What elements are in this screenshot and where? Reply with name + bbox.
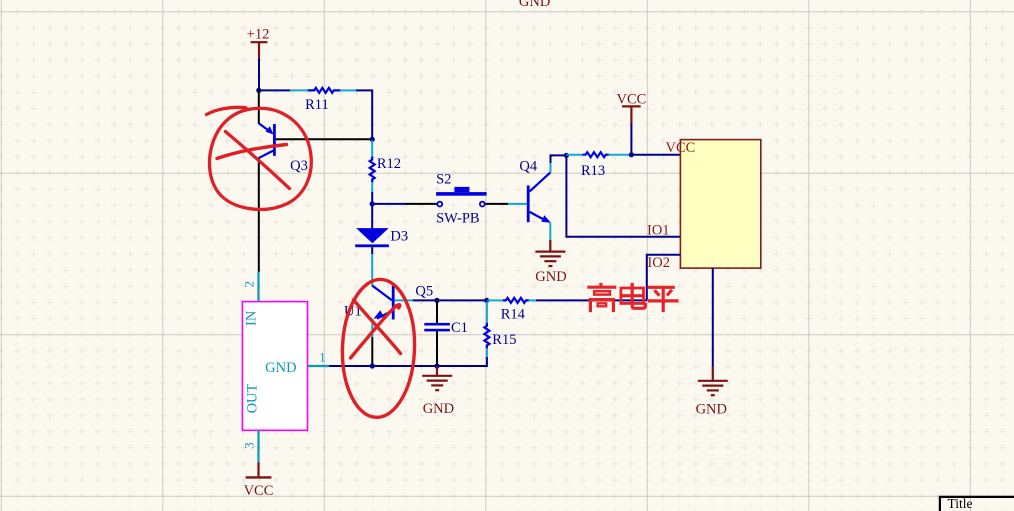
wire R14 to IO2 [536,299,647,301]
pin R11.2 [340,89,356,91]
wire Q3 collector top [258,89,260,124]
resistor R11 [305,88,340,113]
svg-text:VCC: VCC [244,483,274,499]
pin 3 OUT [241,430,258,462]
node junction Q5/C1 [434,298,439,303]
wire node to D3 [371,204,373,229]
svg-text:3: 3 [241,442,256,449]
pin R15.2 [486,348,488,357]
wire Q3 base [276,138,372,140]
sheet entry VCC [666,140,696,156]
svg-text:Q4: Q4 [519,159,537,175]
svg-text:C1: C1 [451,320,468,336]
svg-text:R11: R11 [305,97,329,113]
svg-text:GND: GND [535,269,566,285]
resistor R12 [370,156,401,182]
svg-text:R15: R15 [492,332,516,348]
power port VCC bottom [244,462,274,498]
label GND reg [265,360,296,376]
resistor R15 [484,323,516,349]
node junction R14/R15 [484,298,489,303]
power port +12 [247,27,270,58]
switch S2 [436,171,487,226]
node junction C1/GND rail [434,363,439,368]
transistor Q3 [259,124,308,174]
wire Q3 emitter down [258,157,260,272]
transistor Q4 [519,159,551,223]
wire bottom rail [329,365,437,367]
pin R11.1 [290,89,308,91]
svg-text:GND: GND [519,0,550,10]
ground GND C1 [422,376,454,417]
wire IO1 [566,155,680,236]
capacitor C1 [424,320,468,336]
wire R11 to R12 corner [356,90,372,139]
wire node to S2 black [405,203,438,205]
svg-text:VCC: VCC [616,92,646,108]
pin 2 IN [242,272,259,302]
svg-text:2: 2 [242,281,257,288]
pin R15.1 [486,302,488,323]
svg-text:GND: GND [265,360,296,376]
wire C1 top [436,300,438,323]
sheet entry IO2 [647,255,670,271]
pin R12.2 [371,182,373,192]
wire Q4 emitter gnd [549,240,551,252]
wire S2 to Q4 [486,203,509,205]
resistor R13 [581,152,609,179]
sheet entry IO1 [647,222,670,238]
annotation cross U1 [351,300,401,358]
pin R13.1 [566,154,582,156]
wire C1 to R15 node [437,299,487,301]
svg-text:D3: D3 [390,228,408,244]
node junction +12 rail [256,88,261,93]
wire U1 base [413,299,437,301]
pin R13.2 [609,154,630,156]
diode D3 [355,228,408,247]
svg-text:GND: GND [423,401,454,417]
pin U1 emitter [371,319,373,337]
svg-text:GND: GND [696,401,727,417]
wire IO2 [647,255,681,301]
svg-text:OUT: OUT [244,383,260,413]
pin Q4 collector [550,163,552,172]
svg-text:IN: IN [243,310,259,326]
node junction D3/S2 [370,201,375,206]
svg-text:Q3: Q3 [290,158,308,174]
pin R14.1 [488,299,504,301]
ground GND U-box [696,381,728,418]
wire GND stem C1 [436,366,438,376]
wire VCC stem navy [630,123,632,155]
wire R12 to node [371,192,373,204]
ground GND Q4 [535,252,566,285]
pin Q4 base [508,203,527,205]
node junction R13/VCC [629,152,634,157]
pin R12.1 [371,140,373,156]
pin U1 base [395,299,413,301]
wire node to S2 navy [372,203,405,205]
wire D3 down [371,247,373,254]
svg-text:R14: R14 [501,306,526,322]
node junction R11/R12 [370,137,375,142]
wire R11 left [259,89,290,91]
svg-text:R13: R13 [581,163,605,179]
svg-text:VCC: VCC [666,140,696,156]
svg-text:+12: +12 [247,27,270,43]
power label GND top [519,0,550,10]
wire R13 to U-box [631,154,680,156]
annotation ellipse Q3 [207,107,312,209]
svg-text:SW-PB: SW-PB [436,211,480,227]
resistor R14 [501,298,529,323]
wire R15 to bottom rail [437,357,487,366]
label high-level 电 [621,283,645,308]
label IN [243,310,259,326]
label OUT [244,383,260,413]
node junction emitter/rail [370,363,375,368]
pin 1 GND [308,350,330,366]
svg-text:IO2: IO2 [647,255,670,271]
wire U-box to GND [712,268,714,367]
wire U1 emitter [371,337,373,366]
pin R14.2 [529,299,536,301]
node junction Q4/R13 [564,153,569,158]
pin D3 / U1 collector [371,254,373,286]
label high-level 高 [587,283,616,312]
label high-level 平 [648,287,679,312]
svg-text:IO1: IO1 [647,222,670,238]
wire C1 bottom [436,331,438,366]
annotation cross Q3 [217,132,290,189]
wire +12 stem [258,58,260,92]
wire Q4 collector [551,155,567,163]
wire GND stem [712,367,714,381]
annotation ellipse U1 [340,278,417,418]
sheet symbol U-box [680,140,760,269]
power port VCC top [616,92,646,123]
svg-text:Title: Title [948,496,973,511]
svg-text:1: 1 [319,350,326,365]
pin Q4 emitter [549,223,551,240]
title block [940,496,1014,511]
svg-text:R12: R12 [377,156,401,172]
svg-text:S2: S2 [436,171,451,187]
component U reg body [242,302,307,431]
svg-text:Q5: Q5 [415,283,433,299]
transistor U1/Q5 [344,283,433,319]
